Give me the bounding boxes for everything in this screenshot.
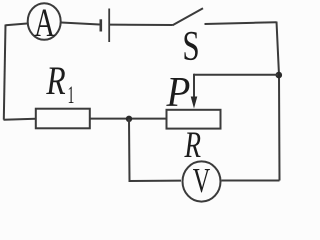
wire R1 to rheostat <box>90 118 167 120</box>
wire ammeter to battery <box>61 23 99 25</box>
svg-text:A: A <box>34 0 55 45</box>
wire left vertical rail <box>4 25 6 120</box>
wire top-left horizontal (ammeter to corner) <box>6 24 28 26</box>
wire right vertical rail <box>277 22 280 181</box>
svg-text:1: 1 <box>68 82 75 109</box>
wire voltmeter to right rail <box>222 180 280 182</box>
wire battery to switch <box>110 24 173 26</box>
battery B1 <box>101 9 109 43</box>
ammeter A1 <box>28 0 61 45</box>
label R1 <box>45 58 74 109</box>
voltmeter V1 <box>183 161 221 201</box>
junction node (R1/rheostat/voltmeter tap) <box>126 116 132 122</box>
svg-text:P: P <box>166 69 191 116</box>
potentiometer wiper arrow P <box>191 74 198 109</box>
svg-text:S: S <box>182 22 199 69</box>
junction node (right rail / wiper feed) <box>276 72 283 79</box>
wire junction down to voltmeter branch <box>129 119 181 181</box>
resistor R1 (box) <box>36 109 90 129</box>
svg-text:V: V <box>193 162 211 200</box>
wire wiper feed horizontal <box>194 74 278 76</box>
svg-text:R: R <box>45 58 65 103</box>
wire into resistor R1 <box>4 119 36 120</box>
svg-text:R: R <box>184 125 202 166</box>
rheostat R (box) <box>167 110 221 129</box>
switch S <box>173 8 277 25</box>
